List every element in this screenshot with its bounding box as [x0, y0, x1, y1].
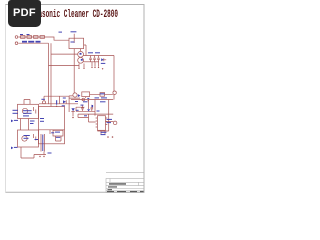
driver box A — [18, 104, 39, 118]
title block — [106, 173, 144, 193]
label caps — [88, 52, 93, 53]
wire bottom rail — [21, 147, 46, 158]
label zener — [101, 63, 106, 64]
transistor Q4 — [22, 136, 27, 141]
wire — [50, 43, 52, 106]
IC U2 pins — [96, 118, 108, 127]
page border left — [5, 5, 7, 193]
wire — [76, 110, 95, 112]
capacitor C5 — [91, 105, 94, 112]
title block text — [109, 183, 126, 184]
wire — [18, 36, 46, 38]
label Q2 — [41, 99, 45, 100]
wire — [106, 121, 114, 123]
resistor marks box B — [34, 134, 36, 141]
ground drops — [79, 62, 99, 68]
wire — [48, 43, 50, 104]
wire — [78, 114, 89, 117]
wire — [46, 37, 69, 40]
label near Q1 stair — [63, 98, 66, 99]
label wire — [59, 31, 63, 34]
terminal J1 — [15, 36, 18, 39]
box K2 — [100, 93, 105, 97]
wire bus2 — [78, 113, 113, 115]
resistor marks box A — [34, 107, 36, 114]
IC U2 labels right — [107, 119, 113, 120]
capacitor C2 — [93, 56, 96, 62]
big box inner stubs — [50, 130, 61, 141]
bridge rectifier D1 — [78, 51, 84, 57]
labels under IC U2 — [101, 132, 107, 133]
resistor labels left — [13, 110, 19, 111]
LED triangle — [11, 120, 14, 123]
LED triangle 2 — [11, 147, 14, 150]
junction ring — [82, 98, 85, 101]
capacitor C1 — [89, 56, 92, 62]
transistor Q2 — [43, 101, 46, 104]
wire — [49, 64, 80, 66]
inductor L2 — [34, 36, 39, 39]
terminal J2 — [15, 42, 18, 45]
wire — [108, 100, 110, 132]
wire — [18, 42, 48, 44]
cap vert mark — [56, 100, 57, 105]
label fuse — [20, 34, 23, 35]
terminal OUT1 — [113, 91, 116, 94]
between-box labels — [30, 121, 35, 122]
labels cluster — [95, 97, 100, 98]
capacitor C3 — [97, 56, 100, 62]
label switch — [71, 31, 77, 32]
fuse F1 — [21, 36, 26, 39]
zener ZD1 bar — [104, 58, 106, 61]
wire right bus — [113, 56, 115, 92]
stubs above box A — [24, 100, 30, 105]
diode D3 triangle — [71, 108, 74, 111]
switch box S1 — [69, 38, 84, 48]
transistor Q1 — [73, 93, 77, 97]
IC U2 — [97, 116, 105, 131]
diode Q1 triangle — [78, 94, 81, 97]
wire — [94, 100, 96, 116]
cluster specks — [81, 105, 84, 106]
diode D2 triangle — [63, 100, 66, 103]
small box — [53, 130, 63, 136]
transformer T1 windings — [41, 134, 45, 152]
driver box B — [18, 130, 39, 147]
wire between boxes — [21, 119, 29, 131]
junction dots — [78, 68, 79, 69]
transistor Q5 — [22, 108, 27, 113]
diode D3 on vertical — [71, 112, 74, 117]
wire — [90, 93, 113, 95]
wire — [97, 131, 108, 135]
wire — [88, 100, 90, 110]
wire bus — [84, 55, 115, 57]
terminal OUT2 — [113, 121, 117, 125]
wire — [89, 114, 96, 122]
page border top — [5, 4, 145, 6]
diode D2 bar — [65, 100, 67, 103]
wire — [51, 53, 78, 55]
wire bus mid — [69, 97, 86, 99]
inductor L1 — [27, 36, 32, 39]
zener triangle — [101, 58, 104, 61]
label bottom left — [48, 153, 52, 154]
wire from switch to bus — [84, 45, 86, 56]
PDF badge — [8, 0, 41, 27]
page border bottom — [5, 191, 145, 193]
box Q-out text — [24, 135, 30, 136]
wire bus — [84, 61, 100, 63]
wire mid long — [39, 103, 78, 105]
box small text — [55, 132, 60, 133]
box K1 — [82, 92, 90, 97]
label filter text row — [22, 41, 27, 43]
big box labels — [40, 118, 44, 119]
wire — [76, 107, 85, 111]
big box T-drive — [39, 107, 65, 144]
inductor L3 — [40, 36, 45, 39]
page border right — [143, 5, 145, 193]
labels under relay row — [75, 101, 78, 102]
wire upper rail — [44, 96, 69, 104]
page background — [0, 0, 149, 198]
capacitor C4 — [81, 105, 84, 112]
IC U1 text — [23, 110, 32, 111]
wire — [69, 96, 73, 112]
transformer core — [42, 135, 43, 152]
wire switch-to-Q1 vertical — [73, 49, 75, 93]
cluster bus1 — [71, 94, 114, 99]
label bridge — [80, 53, 82, 55]
diode cluster triangle — [87, 109, 90, 111]
